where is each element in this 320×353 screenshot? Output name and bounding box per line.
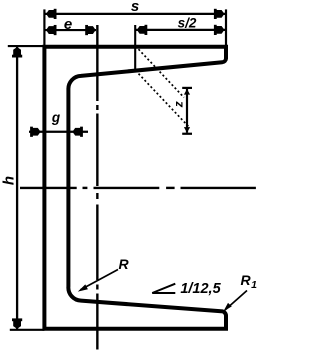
svg-text:h: h xyxy=(1,176,18,185)
svg-text:z: z xyxy=(172,101,186,108)
svg-text:1/12,5: 1/12,5 xyxy=(180,281,221,297)
svg-text:R: R xyxy=(118,256,129,272)
svg-text:R: R xyxy=(240,272,251,288)
svg-text:g: g xyxy=(51,110,61,125)
svg-text:e: e xyxy=(64,16,72,33)
svg-text:1: 1 xyxy=(251,279,257,291)
svg-text:s/2: s/2 xyxy=(178,16,197,31)
svg-text:s: s xyxy=(131,0,139,15)
